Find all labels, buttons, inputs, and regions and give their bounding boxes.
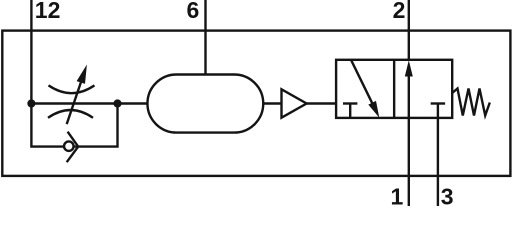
svg-text:1: 1	[391, 184, 404, 207]
svg-text:2: 2	[393, 0, 406, 23]
svg-text:3: 3	[441, 184, 454, 207]
svg-text:12: 12	[35, 0, 61, 23]
svg-text:6: 6	[187, 0, 200, 23]
